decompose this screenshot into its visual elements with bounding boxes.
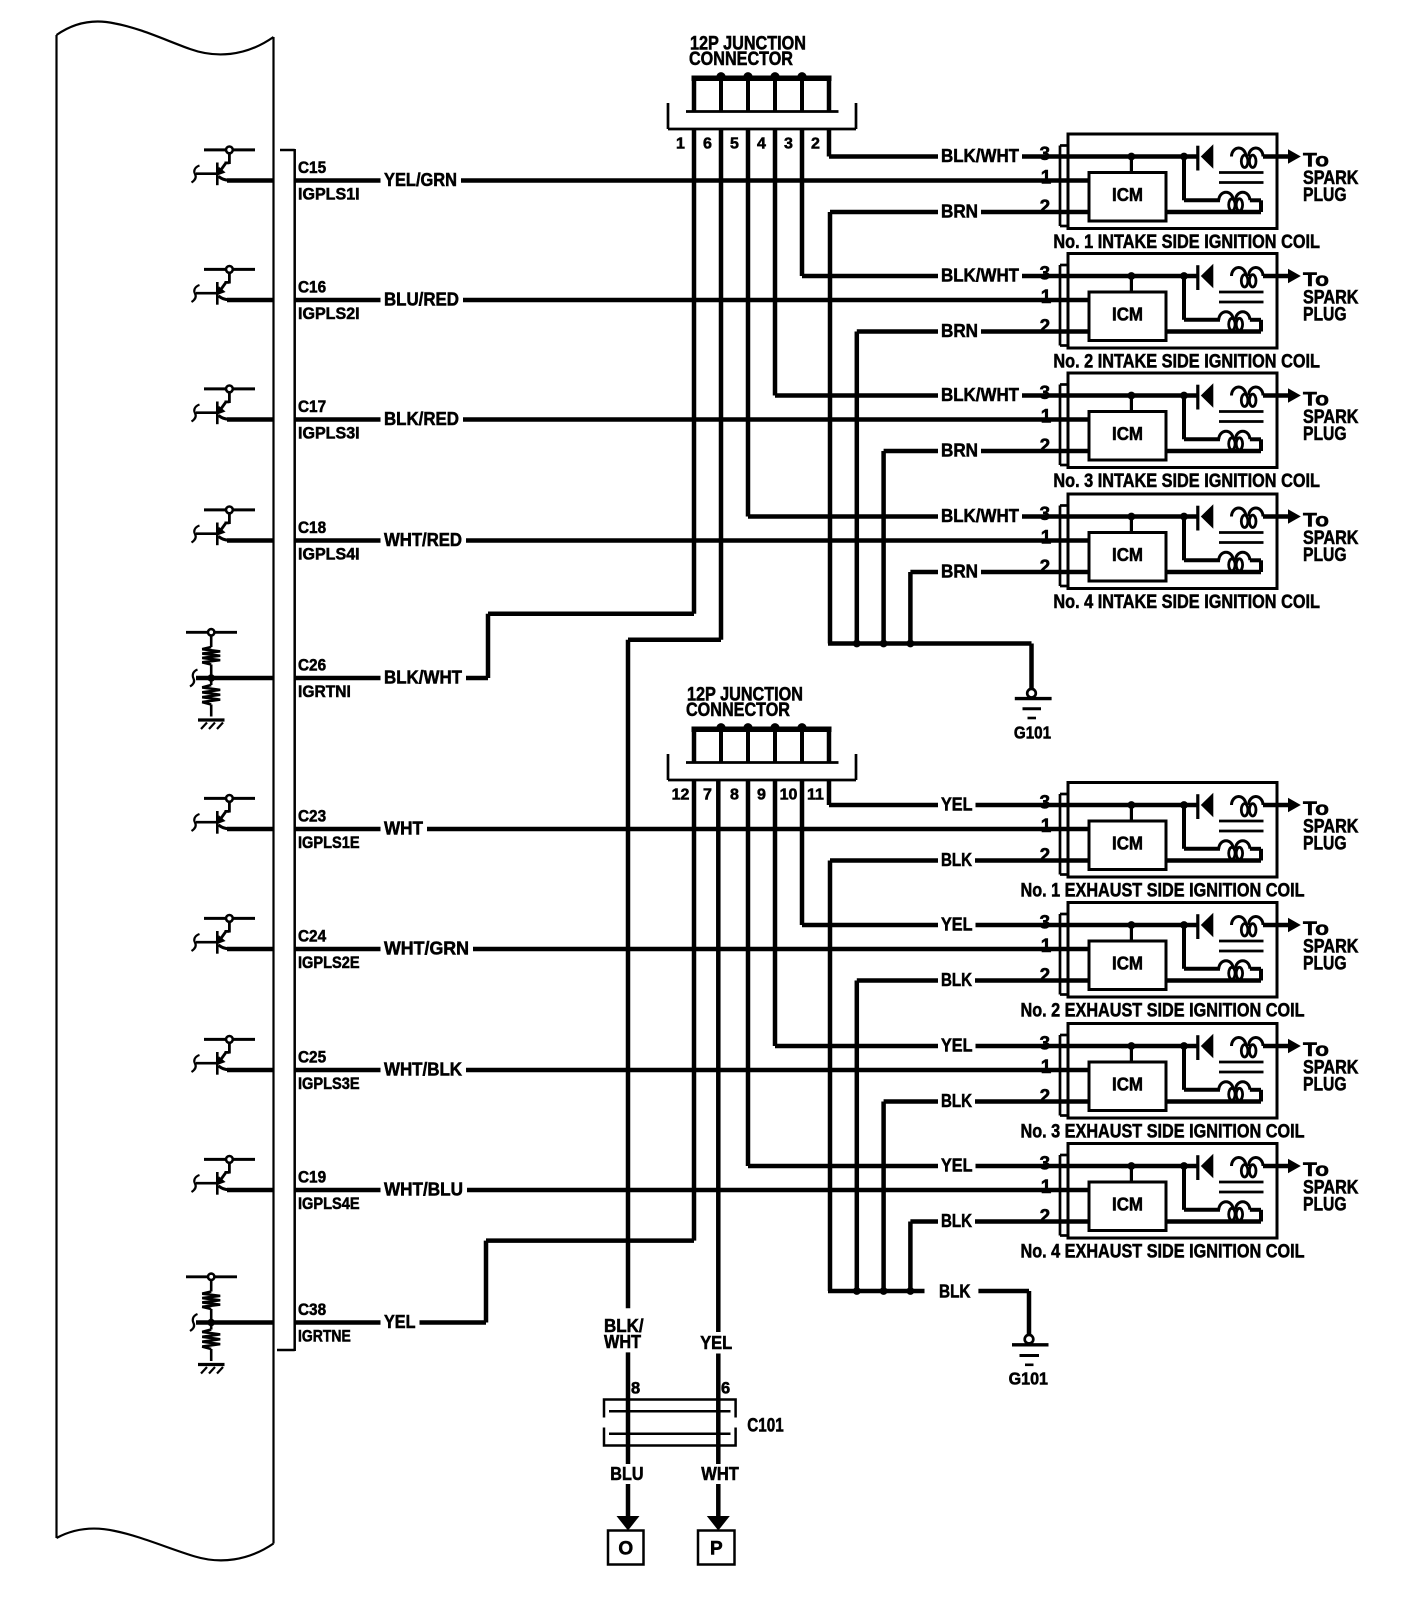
svg-text:YEL: YEL — [941, 1036, 973, 1056]
svg-text:8: 8 — [631, 1380, 640, 1398]
svg-text:C17: C17 — [298, 397, 326, 416]
svg-text:C18: C18 — [298, 518, 326, 537]
svg-text:IGPLS2E: IGPLS2E — [298, 953, 360, 972]
svg-text:BLK: BLK — [941, 1091, 972, 1111]
svg-text:No. 4 EXHAUST SIDE IGNITION CO: No. 4 EXHAUST SIDE IGNITION COIL — [1021, 1241, 1305, 1262]
svg-text:11: 11 — [807, 787, 824, 804]
svg-text:No. 1 EXHAUST SIDE IGNITION CO: No. 1 EXHAUST SIDE IGNITION COIL — [1021, 880, 1305, 901]
svg-text:O: O — [618, 1539, 633, 1560]
svg-text:ICM: ICM — [1112, 1075, 1143, 1095]
svg-text:WHT/BLU: WHT/BLU — [384, 1180, 463, 1200]
svg-text:No. 2 EXHAUST SIDE IGNITION CO: No. 2 EXHAUST SIDE IGNITION COIL — [1021, 1000, 1305, 1021]
svg-text:BLK/WHT: BLK/WHT — [941, 266, 1019, 286]
svg-text:5: 5 — [730, 136, 739, 153]
svg-text:PLUG: PLUG — [1303, 834, 1347, 855]
svg-text:YEL: YEL — [384, 1312, 416, 1332]
svg-text:C23: C23 — [298, 807, 326, 826]
svg-text:1: 1 — [676, 136, 685, 153]
svg-text:BLK: BLK — [941, 850, 972, 870]
svg-text:1: 1 — [1041, 936, 1052, 957]
svg-text:YEL/GRN: YEL/GRN — [384, 170, 457, 190]
svg-text:WHT: WHT — [384, 819, 423, 839]
svg-text:2: 2 — [1040, 197, 1051, 218]
svg-text:YEL: YEL — [941, 1156, 973, 1176]
svg-text:BRN: BRN — [941, 562, 978, 582]
svg-text:BRN: BRN — [941, 441, 978, 461]
svg-text:PLUG: PLUG — [1303, 954, 1347, 975]
svg-text:IGPLS1E: IGPLS1E — [298, 833, 360, 852]
svg-text:IGRTNE: IGRTNE — [298, 1327, 351, 1346]
svg-text:BLK/WHT: BLK/WHT — [941, 146, 1019, 166]
svg-text:BRN: BRN — [941, 321, 978, 341]
svg-text:PLUG: PLUG — [1303, 545, 1347, 566]
svg-text:ICM: ICM — [1112, 1195, 1143, 1215]
svg-text:IGPLS4E: IGPLS4E — [298, 1194, 360, 1213]
svg-text:2: 2 — [811, 136, 820, 153]
svg-text:9: 9 — [757, 787, 766, 804]
svg-text:6: 6 — [721, 1380, 730, 1398]
svg-text:WHT: WHT — [701, 1464, 739, 1484]
svg-text:C15: C15 — [298, 158, 326, 177]
svg-text:No. 3 EXHAUST SIDE IGNITION CO: No. 3 EXHAUST SIDE IGNITION COIL — [1021, 1121, 1305, 1142]
svg-text:10: 10 — [780, 787, 798, 804]
svg-text:BLK: BLK — [941, 1211, 972, 1231]
svg-text:C26: C26 — [298, 656, 326, 675]
svg-text:4: 4 — [757, 136, 766, 153]
svg-text:PLUG: PLUG — [1303, 1075, 1347, 1096]
svg-text:1: 1 — [1041, 1177, 1052, 1198]
svg-text:BLK/WHT: BLK/WHT — [941, 506, 1019, 526]
svg-text:ICM: ICM — [1112, 834, 1143, 854]
svg-text:WHT/BLK: WHT/BLK — [384, 1060, 462, 1080]
svg-text:BLU: BLU — [610, 1464, 643, 1484]
svg-text:PLUG: PLUG — [1303, 1195, 1347, 1216]
svg-text:C25: C25 — [298, 1048, 326, 1067]
svg-text:WHT/RED: WHT/RED — [384, 530, 462, 550]
svg-text:BLK/RED: BLK/RED — [384, 409, 459, 429]
svg-text:BRN: BRN — [941, 202, 978, 222]
svg-text:G101: G101 — [1009, 1369, 1049, 1389]
svg-text:PLUG: PLUG — [1303, 185, 1347, 206]
svg-text:IGRTNI: IGRTNI — [298, 682, 351, 701]
svg-text:No. 4 INTAKE SIDE IGNITION COI: No. 4 INTAKE SIDE IGNITION COIL — [1053, 592, 1320, 613]
svg-text:1: 1 — [1041, 528, 1052, 549]
svg-text:WHT/GRN: WHT/GRN — [384, 939, 469, 959]
svg-text:P: P — [710, 1539, 723, 1560]
svg-text:BLK: BLK — [941, 970, 972, 990]
svg-text:CONNECTOR: CONNECTOR — [689, 49, 793, 70]
svg-text:C19: C19 — [298, 1168, 326, 1187]
svg-text:12: 12 — [672, 787, 690, 804]
svg-text:IGPLS4I: IGPLS4I — [298, 545, 360, 564]
svg-text:2: 2 — [1040, 1086, 1051, 1107]
svg-text:7: 7 — [703, 787, 712, 804]
svg-text:1: 1 — [1041, 407, 1052, 428]
svg-text:IGPLS3E: IGPLS3E — [298, 1074, 360, 1093]
svg-text:2: 2 — [1040, 965, 1051, 986]
svg-text:C38: C38 — [298, 1300, 326, 1319]
svg-text:C101: C101 — [747, 1416, 784, 1437]
svg-text:CONNECTOR: CONNECTOR — [686, 700, 790, 721]
svg-text:2: 2 — [1040, 845, 1051, 866]
svg-text:PLUG: PLUG — [1303, 424, 1347, 445]
svg-text:2: 2 — [1040, 1206, 1051, 1227]
svg-text:1: 1 — [1041, 287, 1052, 308]
svg-text:IGPLS3I: IGPLS3I — [298, 424, 360, 443]
svg-text:No. 2 INTAKE SIDE IGNITION COI: No. 2 INTAKE SIDE IGNITION COIL — [1053, 351, 1320, 372]
svg-text:6: 6 — [703, 136, 712, 153]
svg-text:YEL: YEL — [941, 795, 973, 815]
svg-text:ICM: ICM — [1112, 545, 1143, 565]
svg-text:ICM: ICM — [1112, 185, 1143, 205]
svg-text:2: 2 — [1040, 316, 1051, 337]
svg-text:YEL: YEL — [700, 1333, 732, 1353]
svg-text:IGPLS1I: IGPLS1I — [298, 185, 360, 204]
svg-text:No. 1 INTAKE SIDE IGNITION COI: No. 1 INTAKE SIDE IGNITION COIL — [1053, 232, 1320, 253]
svg-text:BLU/RED: BLU/RED — [384, 290, 459, 310]
svg-text:C24: C24 — [298, 927, 327, 946]
svg-text:1: 1 — [1041, 168, 1052, 189]
svg-text:WHT: WHT — [604, 1332, 641, 1352]
svg-text:YEL: YEL — [941, 915, 973, 935]
svg-text:C16: C16 — [298, 278, 326, 297]
svg-text:PLUG: PLUG — [1303, 305, 1347, 326]
svg-text:G101: G101 — [1014, 722, 1051, 742]
svg-text:ICM: ICM — [1112, 954, 1143, 974]
svg-text:1: 1 — [1041, 1057, 1052, 1078]
svg-text:8: 8 — [730, 787, 739, 804]
svg-text:2: 2 — [1040, 557, 1051, 578]
svg-text:IGPLS2I: IGPLS2I — [298, 304, 360, 323]
svg-text:BLK/WHT: BLK/WHT — [941, 385, 1019, 405]
svg-text:BLK: BLK — [939, 1282, 971, 1302]
svg-text:2: 2 — [1040, 436, 1051, 457]
svg-text:No. 3 INTAKE SIDE IGNITION COI: No. 3 INTAKE SIDE IGNITION COIL — [1053, 471, 1320, 492]
svg-text:ICM: ICM — [1112, 305, 1143, 325]
svg-text:BLK/WHT: BLK/WHT — [384, 668, 462, 688]
svg-text:3: 3 — [784, 136, 793, 153]
svg-text:1: 1 — [1041, 816, 1052, 837]
svg-text:ICM: ICM — [1112, 424, 1143, 444]
